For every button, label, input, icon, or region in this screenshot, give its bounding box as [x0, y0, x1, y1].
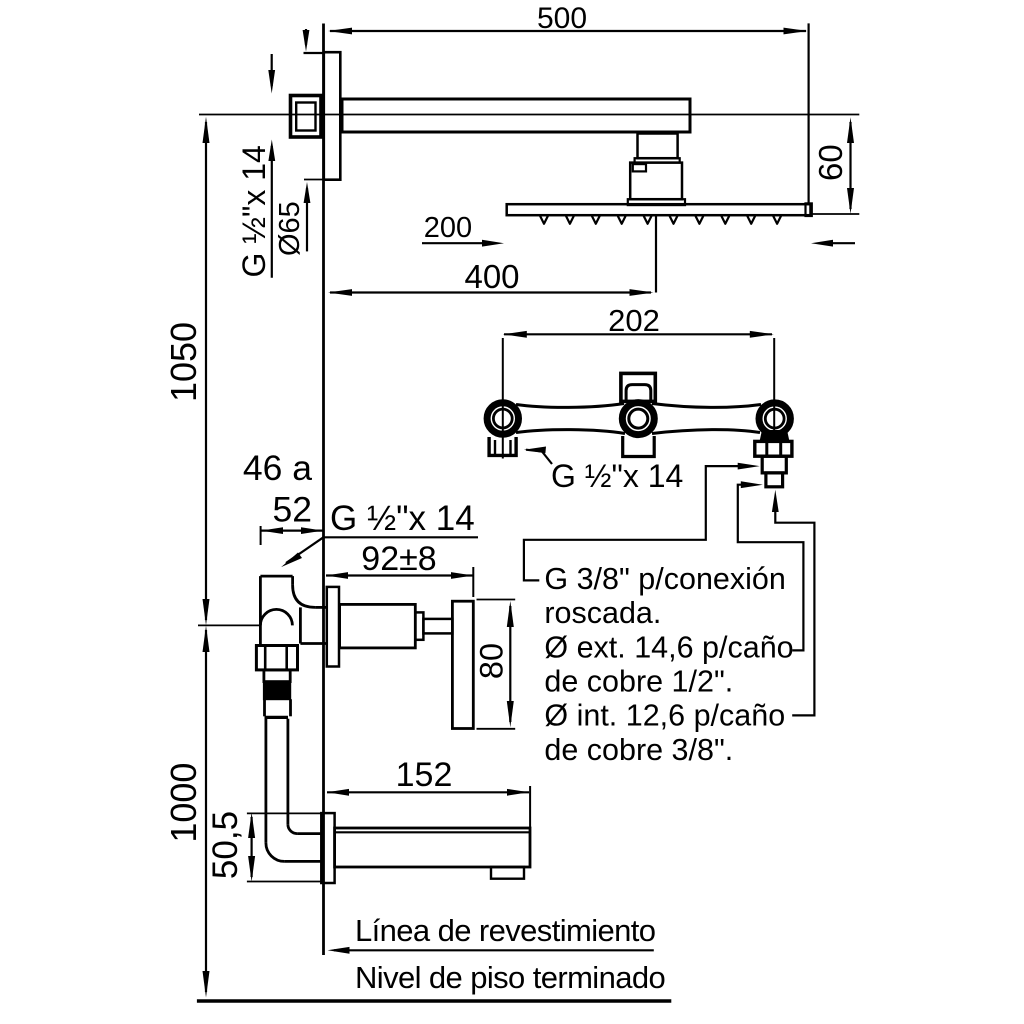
valve handle [452, 601, 473, 728]
riser pipe and elbow [265, 699, 322, 861]
svg-text:de cobre 3/8".: de cobre 3/8". [544, 733, 733, 767]
mixer right inlet flange [759, 403, 790, 434]
svg-text:Ø int. 12,6 p/caño: Ø int. 12,6 p/caño [544, 699, 785, 733]
tub spout [335, 828, 530, 879]
svg-text:roscada.: roscada. [544, 596, 661, 630]
dimension 152 [327, 756, 530, 828]
shower head nozzles [540, 216, 781, 224]
dimension 1050 [163, 117, 210, 626]
dimension 202 [503, 303, 774, 459]
svg-text:Ø65: Ø65 [274, 201, 306, 256]
dimension 50,5 [206, 811, 321, 882]
shower head plate [507, 204, 811, 215]
svg-text:Nivel de piso terminado: Nivel de piso terminado [355, 960, 665, 995]
svg-text:G 3/8" p/conexión: G 3/8" p/conexión [544, 562, 785, 596]
svg-text:de cobre 1/2".: de cobre 1/2". [544, 664, 733, 698]
shower arm [342, 99, 690, 132]
svg-text:500: 500 [537, 2, 587, 35]
valve body [340, 604, 416, 648]
right eccentric connector [755, 430, 792, 487]
label 46 a 52 [243, 448, 312, 530]
leader to connector thread G3/8 [524, 463, 760, 581]
arm connector notch [633, 164, 646, 171]
arm connector body [630, 163, 682, 200]
mixer left nipple [489, 437, 516, 455]
dimension 60 [812, 117, 859, 214]
leader to connector ext 14.6 [738, 481, 804, 650]
wall line [322, 24, 325, 956]
svg-text:92±8: 92±8 [361, 540, 436, 578]
reference line arm center [199, 114, 859, 116]
reference line spout center [198, 624, 260, 626]
dimension 400 [328, 215, 656, 296]
arm connector upper [638, 134, 678, 159]
dimension 500 [328, 2, 809, 204]
svg-text:400: 400 [464, 258, 519, 295]
mixer body [516, 404, 761, 434]
dimension 80 [474, 600, 516, 729]
svg-text:200: 200 [424, 212, 472, 244]
shower head end cap [806, 203, 812, 216]
svg-text:1050: 1050 [163, 322, 204, 402]
leader to connector int 12.6 [772, 490, 815, 716]
diverter adapter [264, 670, 290, 682]
label G 1/2 x 14 mixer [524, 447, 683, 495]
svg-text:202: 202 [608, 303, 660, 338]
svg-text:46 a: 46 a [243, 448, 312, 488]
dimension 92±8 [326, 540, 473, 597]
svg-text:1000: 1000 [163, 763, 204, 843]
connection text block [544, 562, 793, 767]
leader arrow to fitting top [268, 54, 275, 94]
svg-text:Ø ext. 14,6 p/caño: Ø ext. 14,6 p/caño [544, 630, 793, 664]
svg-text:50,5: 50,5 [206, 811, 245, 879]
mixer valve top [621, 373, 655, 401]
leader arrow to flange top [303, 29, 323, 53]
svg-text:G ½"x 14: G ½"x 14 [236, 145, 272, 277]
dimension 200 [422, 212, 855, 247]
svg-text:G ½"x 14: G ½"x 14 [330, 499, 475, 538]
spout wall flange [321, 813, 334, 883]
arm connector flange [628, 199, 685, 205]
svg-text:52: 52 [273, 490, 313, 530]
svg-text:60: 60 [812, 144, 849, 181]
diverter black band [264, 682, 290, 700]
diverter hex nut [256, 646, 297, 670]
revestimiento label [328, 913, 656, 954]
valve wall flange [327, 587, 339, 667]
dimension 1000 [163, 626, 210, 998]
dimension 52 [261, 526, 323, 545]
label G 1/2 x14 wall with leader [281, 499, 478, 567]
diverter dome [260, 609, 292, 625]
svg-text:G ½"x 14: G ½"x 14 [551, 458, 683, 494]
mixer center outlet [622, 403, 654, 435]
label Ø65 with leader [274, 180, 323, 257]
valve stem [423, 619, 452, 634]
wall fitting G1/2 [291, 96, 322, 138]
diverter top pipe [260, 576, 315, 645]
arm connector plate [635, 158, 680, 162]
svg-text:152: 152 [396, 756, 453, 794]
diverter outlet pipe [300, 607, 326, 643]
ground line [197, 999, 671, 1002]
label G 1/2 x 14 vertical with leader [236, 140, 275, 278]
svg-text:Línea de revestimiento: Línea de revestimiento [355, 913, 655, 948]
shower arm flange [324, 52, 341, 180]
svg-text:80: 80 [474, 643, 510, 679]
mixer left inlet flange [487, 403, 518, 434]
valve step [415, 612, 423, 639]
mixer bottom tab [623, 436, 655, 457]
